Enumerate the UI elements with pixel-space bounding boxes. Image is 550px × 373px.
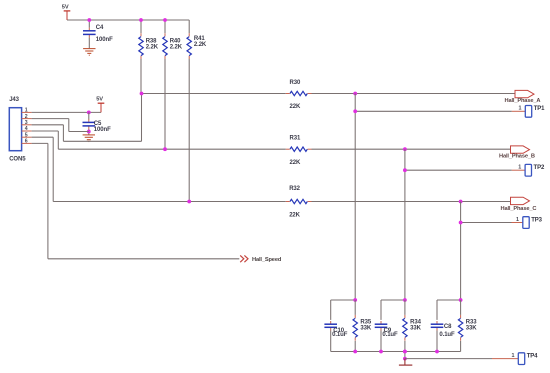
svg-text:R38: R38 [146, 38, 157, 44]
svg-text:1: 1 [516, 217, 519, 223]
svg-text:Hall_Phase_A: Hall_Phase_A [505, 98, 541, 104]
svg-text:100nF: 100nF [96, 37, 113, 43]
svg-text:33K: 33K [410, 326, 421, 332]
svg-text:5: 5 [25, 132, 28, 138]
svg-text:CON5: CON5 [9, 157, 26, 163]
svg-text:0.1uF: 0.1uF [332, 332, 348, 338]
svg-text:5V: 5V [96, 96, 103, 102]
svg-text:R40: R40 [170, 38, 181, 44]
svg-text:100nF: 100nF [94, 127, 111, 133]
svg-text:Hall_Phase_C: Hall_Phase_C [501, 206, 537, 212]
svg-text:33K: 33K [360, 326, 371, 332]
svg-text:1: 1 [512, 353, 515, 359]
svg-text:1: 1 [519, 106, 522, 112]
svg-text:0.1uF: 0.1uF [382, 332, 398, 338]
svg-text:2: 2 [25, 114, 28, 120]
svg-text:C8: C8 [444, 324, 452, 330]
svg-text:TP3: TP3 [531, 217, 542, 223]
svg-text:22K: 22K [289, 213, 300, 219]
svg-text:2.2K: 2.2K [170, 45, 183, 51]
svg-text:1: 1 [518, 165, 521, 171]
svg-text:1: 1 [25, 108, 28, 114]
svg-text:C5: C5 [94, 121, 102, 127]
svg-text:0.1uF: 0.1uF [439, 332, 455, 338]
svg-text:2.2K: 2.2K [194, 42, 207, 48]
svg-text:J43: J43 [9, 97, 19, 103]
svg-text:TP4: TP4 [527, 353, 538, 359]
svg-text:22K: 22K [290, 104, 301, 110]
svg-text:5V: 5V [62, 5, 69, 11]
svg-text:6: 6 [25, 139, 28, 145]
svg-text:2.2K: 2.2K [146, 45, 159, 51]
svg-text:C4: C4 [96, 25, 104, 31]
svg-text:Hall_Phase_B: Hall_Phase_B [499, 154, 535, 160]
svg-text:R41: R41 [194, 36, 205, 42]
svg-text:3: 3 [25, 120, 28, 126]
svg-text:R31: R31 [290, 136, 301, 142]
svg-text:33K: 33K [466, 326, 477, 332]
svg-text:22K: 22K [290, 160, 301, 166]
svg-text:Hall_Speed: Hall_Speed [252, 257, 282, 263]
svg-text:4: 4 [25, 126, 28, 132]
svg-text:TP2: TP2 [534, 165, 545, 171]
svg-text:R32: R32 [289, 186, 300, 192]
svg-text:R30: R30 [290, 80, 301, 86]
svg-text:TP1: TP1 [534, 106, 545, 112]
